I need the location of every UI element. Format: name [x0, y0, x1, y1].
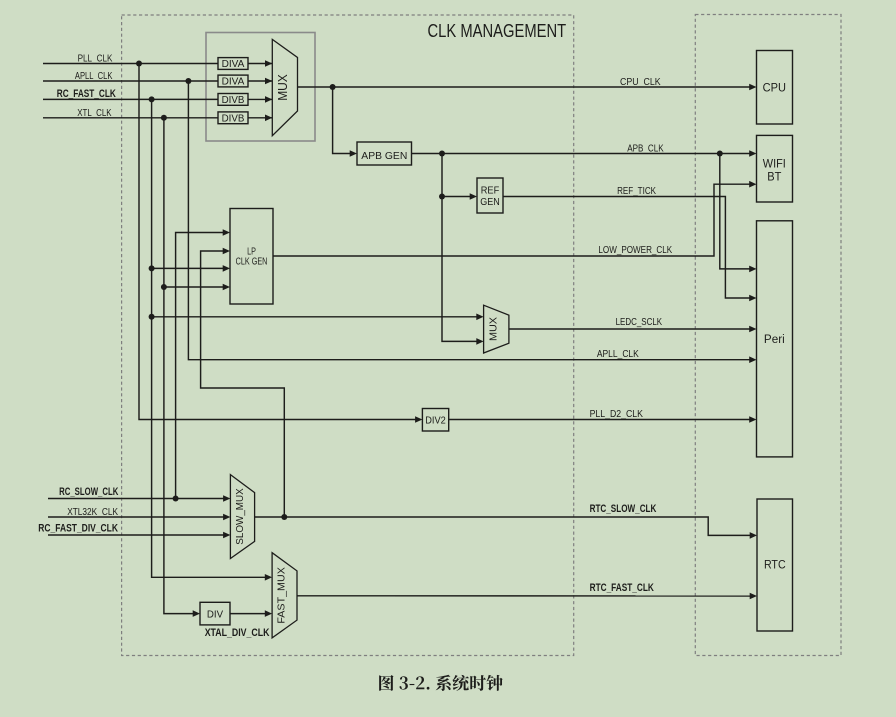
node APB branch to REF GEN / LEDC MUX [439, 151, 445, 157]
svg-text:RC_FAST_CLK: RC_FAST_CLK [57, 88, 116, 100]
block RTC [757, 499, 793, 631]
wire to REF GEN [442, 196, 471, 198]
svg-text:REF: REF [481, 185, 500, 196]
wire DIVA row2 to MUX [248, 80, 272, 82]
svg-text:DIVB: DIVB [222, 113, 245, 124]
svg-text:PLL_D2_CLK: PLL_D2_CLK [590, 409, 644, 420]
svg-text:LOW_POWER_CLK: LOW_POWER_CLK [598, 245, 672, 256]
wire LEDC_SCLK [509, 328, 750, 330]
wire LOW_POWER_CLK [273, 184, 750, 256]
svg-text:PLL_CLK: PLL_CLK [78, 54, 113, 65]
svg-text:LEDC_SCLK: LEDC_SCLK [616, 317, 663, 328]
wire PLL_CLK input [43, 63, 218, 65]
node RC_FAST to LP [149, 265, 155, 271]
svg-text:MUX: MUX [488, 317, 500, 341]
block DIV [200, 602, 230, 625]
node XTL branch [161, 115, 167, 121]
node PLL branch [136, 61, 142, 67]
wire DIVA row1 to MUX [248, 63, 272, 65]
svg-text:XTL_CLK: XTL_CLK [77, 108, 111, 119]
wire RC_FAST_CLK branch down to FAST_MUX [152, 99, 266, 577]
svg-text:RC_SLOW_CLK: RC_SLOW_CLK [59, 486, 118, 498]
wire LP in2 from RTC_SLOW_CLK [201, 251, 285, 517]
wire XTAL_DIV_CLK to FAST_MUX [230, 613, 266, 615]
wire XTL_CLK input [43, 117, 218, 119]
wire RC_FAST_CLK input [43, 98, 218, 100]
divider DIVB row3 [218, 94, 248, 106]
wire CPU_CLK [298, 86, 751, 88]
block LP CLK GEN [230, 209, 273, 305]
svg-text:CPU_CLK: CPU_CLK [620, 77, 661, 88]
caption 图 3-2. 系统时钟 [379, 675, 503, 691]
wire DIVB row4 to MUX [248, 117, 272, 119]
wire DIVB row3 to MUX [248, 98, 272, 100]
block REF GEN [477, 178, 503, 213]
wire RC_FAST_DIV_CLK input [48, 534, 224, 536]
svg-text:DIVA: DIVA [222, 59, 245, 70]
svg-text:BT: BT [767, 169, 782, 183]
svg-text:GEN: GEN [480, 197, 500, 208]
wire LEDC MUX in1 from RC_FAST [152, 316, 477, 318]
wire LP in4 from XTL [164, 286, 224, 288]
gray frame around input dividers and MUX [206, 33, 315, 142]
wire REF_TICK [503, 197, 750, 299]
wire XTL32K_CLK input [48, 516, 224, 518]
wire RTC_SLOW_CLK [255, 517, 751, 535]
block WIFI BT [757, 135, 793, 202]
node RC_FAST branch [149, 96, 155, 102]
wire APB branch down [442, 154, 477, 342]
svg-text:RTC: RTC [764, 557, 786, 571]
mux FAST_MUX [272, 553, 297, 638]
wire PLL_CLK branch down to DIV2 [139, 64, 416, 420]
wire LP in3 from RC_FAST [152, 267, 224, 269]
svg-text:APLL_CLK: APLL_CLK [75, 71, 113, 82]
wire PLL_D2_CLK [449, 419, 750, 421]
wire XTL_CLK branch down to DIV [164, 118, 194, 614]
block APB GEN [357, 142, 412, 165]
svg-text:CPU: CPU [763, 81, 786, 95]
mux LEDC clock MUX [484, 305, 509, 353]
dashed boundary CLK MANAGEMENT domain [122, 15, 574, 656]
block Peri [757, 221, 793, 457]
wire APB_CLK [412, 153, 751, 155]
wire branch to APB GEN [333, 87, 351, 154]
wire RC_SLOW_CLK input [48, 498, 224, 500]
svg-text:DIVB: DIVB [222, 95, 245, 106]
node CPU_CLK branch to APB GEN [330, 84, 336, 90]
wire LP in1 from RC_SLOW [176, 233, 224, 499]
node XTL to LP [161, 284, 167, 290]
svg-text:APB_CLK: APB_CLK [627, 143, 664, 154]
svg-text:SLOW_MUX: SLOW_MUX [234, 488, 246, 545]
svg-text:Peri: Peri [764, 332, 785, 346]
mux main CPU clock MUX [272, 39, 297, 135]
node branch to REF GEN [439, 194, 445, 200]
block DIV2 [422, 409, 448, 432]
svg-text:XTAL_DIV_CLK: XTAL_DIV_CLK [205, 627, 270, 639]
divider DIVA row1 [218, 58, 248, 70]
wire RTC_FAST_CLK [297, 595, 751, 597]
svg-text:RTC_FAST_CLK: RTC_FAST_CLK [590, 582, 654, 594]
svg-text:REF_TICK: REF_TICK [617, 186, 656, 197]
svg-text:DIV2: DIV2 [425, 415, 446, 426]
node RC_FAST to LEDC MUX [149, 314, 155, 320]
divider DIVB row4 [218, 112, 248, 124]
wire APLL_CLK branch down to Peri [188, 81, 750, 360]
svg-text:RC_FAST_DIV_CLK: RC_FAST_DIV_CLK [38, 523, 118, 535]
mux SLOW_MUX [230, 475, 254, 559]
block CPU [757, 51, 793, 125]
svg-text:CLK GEN: CLK GEN [236, 256, 268, 267]
wire APB_CLK to Peri [720, 154, 750, 269]
svg-text:XTL32K_CLK: XTL32K_CLK [67, 507, 118, 518]
svg-text:CLK MANAGEMENT: CLK MANAGEMENT [428, 21, 567, 41]
svg-text:APB GEN: APB GEN [361, 151, 407, 162]
dashed boundary peripheral domain [695, 15, 841, 656]
svg-text:MUX: MUX [276, 74, 290, 101]
svg-text:DIVA: DIVA [222, 77, 245, 88]
node RTC_SLOW branch up [281, 514, 287, 520]
wire APLL_CLK input [43, 80, 218, 82]
svg-text:FAST_MUX: FAST_MUX [276, 567, 288, 624]
node APLL branch [185, 78, 191, 84]
svg-text:APLL_CLK: APLL_CLK [597, 349, 639, 360]
divider DIVA row2 [218, 75, 248, 87]
svg-text:DIV: DIV [207, 609, 224, 620]
svg-text:RTC_SLOW_CLK: RTC_SLOW_CLK [590, 503, 657, 515]
node RC_SLOW branch up [173, 496, 179, 502]
node APB branch to Peri [717, 151, 723, 157]
